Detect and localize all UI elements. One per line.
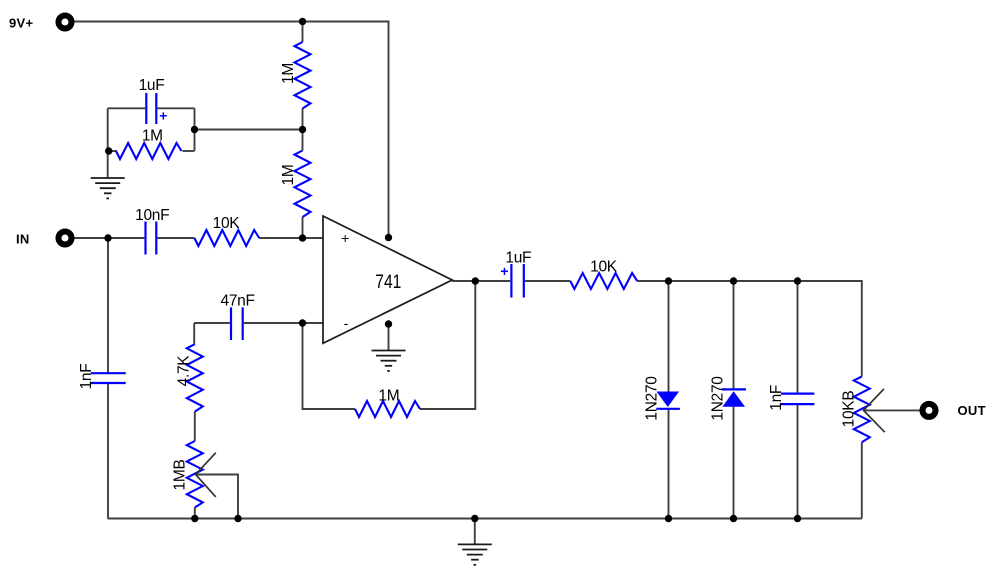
svg-text:1N270: 1N270 (644, 376, 661, 421)
svg-text:10KB: 10KB (841, 391, 858, 428)
svg-text:OUT: OUT (958, 403, 986, 418)
svg-text:47nF: 47nF (221, 293, 255, 310)
svg-text:4.7K: 4.7K (176, 355, 193, 387)
svg-text:1MB: 1MB (172, 460, 189, 491)
svg-text:1uF: 1uF (505, 250, 531, 267)
svg-text:10K: 10K (590, 259, 618, 276)
svg-text:+: + (159, 108, 167, 124)
svg-text:-: - (344, 315, 349, 331)
svg-text:+: + (341, 230, 349, 246)
svg-text:1nF: 1nF (78, 364, 95, 390)
svg-text:1M: 1M (142, 128, 163, 145)
svg-text:IN: IN (16, 232, 30, 247)
svg-text:10nF: 10nF (135, 207, 169, 224)
svg-text:1uF: 1uF (139, 77, 165, 94)
svg-text:1N270: 1N270 (710, 376, 727, 421)
svg-text:741: 741 (375, 271, 401, 293)
svg-text:1nF: 1nF (768, 385, 785, 411)
svg-text:10K: 10K (213, 215, 241, 232)
svg-text:1M: 1M (280, 165, 297, 186)
svg-text:9V+: 9V+ (9, 16, 34, 31)
svg-text:1M: 1M (280, 63, 297, 84)
svg-text:1M: 1M (378, 388, 399, 405)
